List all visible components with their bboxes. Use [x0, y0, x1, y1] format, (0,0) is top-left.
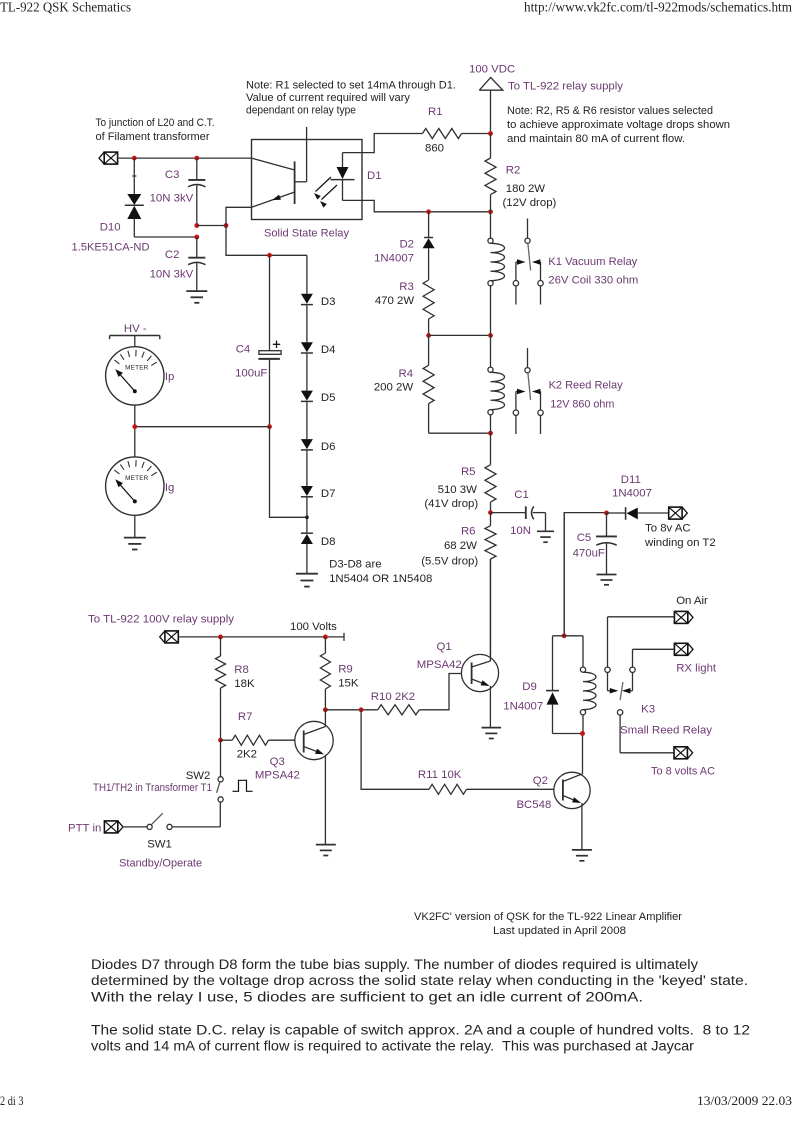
svg-text:510 3W: 510 3W [438, 484, 478, 496]
paragraph 1 [91, 957, 748, 1005]
svg-text:R2: R2 [506, 165, 521, 177]
node dot rail2 bus [488, 333, 493, 338]
connector On Air [674, 611, 687, 623]
node dot R10 R11 [359, 707, 364, 712]
svg-text:With the relay I use, 5 diodes: With the relay I use, 5 diodes are suffi… [91, 989, 643, 1005]
node dot rail2 left [426, 333, 431, 338]
wire R11 branch [361, 710, 429, 790]
node junction dot A [132, 156, 137, 161]
diode D5 [301, 354, 313, 402]
svg-text:Solid State Relay: Solid State Relay [264, 228, 349, 240]
node dot R7 R8 [218, 738, 223, 743]
capacitor C1 10N [491, 506, 546, 530]
transistor Q3 MPSA42 [295, 710, 333, 845]
svg-text:R8: R8 [234, 664, 249, 676]
wire C3 node to SSR input [197, 225, 226, 227]
wire LED top to R1 [343, 134, 423, 153]
svg-text:100uF: 100uF [235, 368, 267, 380]
svg-text:D9: D9 [522, 681, 537, 693]
node dot meters [132, 424, 137, 429]
svg-text:1N4007: 1N4007 [503, 701, 543, 713]
capacitor C2 [188, 237, 205, 291]
svg-text:K1 Vacuum Relay: K1 Vacuum Relay [548, 256, 637, 268]
svg-text:R7: R7 [238, 711, 253, 723]
wire K3 to 8 volts AC [620, 752, 674, 754]
connector filament transformer [104, 152, 117, 164]
diode D7 [301, 451, 313, 497]
svg-text:Q2: Q2 [533, 775, 548, 787]
resistor R8 [216, 637, 226, 740]
connector to 8v AC winding [669, 507, 682, 519]
resistor R10 [378, 705, 420, 715]
diode D4 [301, 305, 313, 353]
svg-text:determined by the voltage drop: determined by the voltage drop across th… [91, 973, 748, 989]
svg-text:winding on T2: winding on T2 [644, 537, 716, 549]
svg-text:Last updated in April 2008: Last updated in April 2008 [493, 925, 626, 937]
svg-text:METER: METER [125, 475, 149, 482]
connector to 8 volts AC [674, 747, 687, 759]
diode D9 [546, 636, 559, 734]
wire filament to SSR [118, 157, 252, 159]
op-box solid state relay U1 [252, 140, 363, 220]
transistor Q1 MPSA42 [461, 559, 498, 727]
svg-text:D4: D4 [321, 344, 336, 356]
svg-text:R1: R1 [428, 106, 443, 118]
svg-text:D3-D8 are: D3-D8 are [329, 559, 382, 571]
svg-text:and maintain 80 mA of current: and maintain 80 mA of current flow. [507, 133, 685, 145]
resistor R6 [485, 513, 496, 657]
node dot SSR input [224, 223, 229, 228]
ground below C5 [597, 574, 617, 576]
svg-text:Standby/Operate: Standby/Operate [119, 858, 202, 870]
relay K2 coil [488, 335, 505, 433]
resistor R7 [221, 735, 296, 745]
node dot R9 top [323, 635, 328, 640]
transistor Q2 BC548 [554, 734, 590, 850]
svg-text:C2: C2 [165, 249, 180, 261]
node dot R8 top [218, 635, 223, 640]
svg-text:12V 860 ohm: 12V 860 ohm [550, 399, 614, 411]
svg-text:R4: R4 [399, 368, 414, 380]
svg-text:C4: C4 [236, 344, 251, 356]
svg-text:C5: C5 [577, 532, 592, 544]
note about R2 R5 R6 [507, 105, 730, 145]
resistor R9 [320, 637, 330, 710]
svg-text:D2: D2 [399, 239, 414, 251]
svg-text:TL-922 QSK Schematics: TL-922 QSK Schematics [0, 0, 131, 15]
svg-text:C1: C1 [514, 489, 529, 501]
ground below C2 [186, 290, 207, 292]
svg-text:On Air: On Air [676, 595, 708, 607]
svg-text:68 2W: 68 2W [444, 540, 477, 552]
svg-text:MPSA42: MPSA42 [417, 659, 462, 671]
diode D10 1.5KE51CA-ND [125, 158, 144, 237]
svg-text:R9: R9 [338, 664, 353, 676]
node dot rail3 bus [488, 431, 493, 436]
switch SW1 [123, 813, 221, 829]
svg-text:Value of current required will: Value of current required will vary [246, 92, 410, 104]
svg-text:Q1: Q1 [437, 641, 452, 653]
wire Ip to Ig [134, 405, 136, 457]
svg-text:dependant on relay type: dependant on relay type [246, 105, 356, 117]
svg-text:13/03/2009 22.03: 13/03/2009 22.03 [697, 1094, 792, 1108]
node junction dot B [194, 156, 199, 161]
svg-text:200 2W: 200 2W [374, 382, 414, 394]
svg-text:2K2: 2K2 [237, 749, 257, 761]
svg-text:VK2FC' version of QSK for the: VK2FC' version of QSK for the TL-922 Lin… [414, 911, 682, 923]
svg-text:1.5KE51CA-ND: 1.5KE51CA-ND [72, 242, 150, 254]
svg-text:1N4007: 1N4007 [374, 253, 414, 265]
resistor R11 [429, 784, 467, 794]
svg-text:of Filament transformer: of Filament transformer [96, 131, 210, 143]
wire down to diode chain [226, 226, 307, 256]
svg-text:D8: D8 [321, 536, 336, 548]
node dot D11 C5 [604, 511, 609, 516]
relay K3 coil [580, 636, 596, 734]
resistor R3 [423, 280, 434, 335]
SSR phototransistor [252, 127, 307, 207]
svg-text:RX light: RX light [676, 663, 717, 675]
label to 8v AC [644, 523, 716, 550]
capacitor C4 100uF [258, 255, 281, 426]
svg-text:http://www.vk2fc.com/tl-922mod: http://www.vk2fc.com/tl-922mods/schemati… [524, 0, 793, 15]
svg-text:D5: D5 [321, 392, 336, 404]
svg-text:K2 Reed Relay: K2 Reed Relay [549, 380, 623, 392]
ground below C1 [537, 530, 554, 532]
svg-text:Ip: Ip [165, 371, 175, 383]
wire K3 to On Air [608, 616, 675, 618]
node dot rail D2 [426, 209, 431, 214]
node dot C4 top [267, 253, 272, 258]
node dot R9 bottom [323, 707, 328, 712]
SSR LED D1 [331, 153, 355, 201]
node dot D7 D8 junction [305, 498, 309, 534]
node dot K3 coil top [562, 633, 567, 638]
connector PTT [104, 821, 117, 833]
wire meters to C4 [135, 426, 270, 428]
svg-text:Diodes D7 through D8 form the: Diodes D7 through D8 form the tube bias … [91, 957, 699, 973]
meter Ip [106, 347, 164, 405]
paragraph 2 [91, 1023, 750, 1055]
diode D2 [423, 212, 435, 280]
svg-text:Note: R2, R5 & R6 resistor val: Note: R2, R5 & R6 resistor values select… [507, 105, 713, 117]
svg-text:2 di 3: 2 di 3 [0, 1094, 24, 1108]
svg-text:K3: K3 [641, 704, 655, 716]
svg-text:D6: D6 [321, 441, 336, 453]
wire riser to SSR emitter [226, 207, 252, 225]
wire coil loop top [553, 635, 584, 637]
switch SW2 [217, 740, 224, 827]
svg-text:R5: R5 [461, 466, 476, 478]
svg-text:SW1: SW1 [147, 839, 172, 851]
svg-text:C3: C3 [165, 169, 180, 181]
svg-text:Q3: Q3 [270, 756, 285, 768]
svg-text:18K: 18K [234, 678, 255, 690]
label D3-D8 are [329, 559, 432, 586]
svg-text:TH1/TH2 in Transformer T1: TH1/TH2 in Transformer T1 [93, 782, 212, 794]
relay K3 contacts [605, 617, 635, 753]
svg-text:to achieve approximate voltage: to achieve approximate voltage drops sho… [507, 119, 730, 131]
ground below Q2 [572, 849, 592, 851]
resistor R5 [485, 433, 496, 512]
svg-text:To 8v AC: To 8v AC [645, 523, 691, 535]
wire K3 to RX light [633, 648, 675, 650]
svg-text:To TL-922 relay supply: To TL-922 relay supply [508, 81, 623, 93]
svg-text:R3: R3 [399, 281, 414, 293]
wire R10 to Q1 base [419, 674, 461, 710]
svg-text:180 2W: 180 2W [506, 183, 546, 195]
relay K1 coil [488, 212, 505, 336]
svg-text:To TL-922 100V relay supply: To TL-922 100V relay supply [88, 613, 234, 625]
wire R1 to bus [462, 133, 491, 135]
node 100 VDC power arrow [469, 64, 515, 134]
svg-text:D7: D7 [321, 488, 336, 500]
resistor R1 [423, 129, 462, 139]
ground below D8 [296, 573, 318, 575]
node dot D10 net [194, 235, 199, 240]
connector 100V relay supply [165, 631, 178, 643]
node dot Q2 collector [580, 731, 585, 736]
svg-text:To 8 volts AC: To 8 volts AC [651, 766, 715, 778]
svg-text:860: 860 [425, 143, 444, 155]
wire R11 to Q2 base [467, 788, 555, 790]
svg-text:The solid state D.C. relay is: The solid state D.C. relay is capable of… [91, 1023, 750, 1039]
wire supply to K3 coil [563, 513, 565, 636]
wire Ig to ground [134, 515, 136, 537]
svg-text:Ig: Ig [165, 482, 175, 494]
ground below Ig [124, 537, 146, 539]
node dot R5 R6 [488, 510, 493, 515]
ground below Q3 [316, 844, 336, 846]
svg-text:1N5404 OR 1N5408: 1N5404 OR 1N5408 [329, 573, 432, 585]
node dot C4 bottom [267, 424, 272, 429]
svg-text:470 2W: 470 2W [375, 295, 415, 307]
ground below Q1 [482, 727, 502, 729]
svg-text:SW2: SW2 [186, 770, 211, 782]
resistor R2 [485, 134, 496, 212]
svg-text:MPSA42: MPSA42 [255, 770, 300, 782]
wire coil loop bottom [553, 733, 584, 735]
wire rail3 [429, 432, 491, 434]
relay K2 contacts [513, 348, 543, 434]
svg-text:D3: D3 [321, 296, 336, 308]
wire 100V rail [178, 633, 344, 641]
svg-text:HV -: HV - [124, 323, 147, 335]
svg-text:15K: 15K [338, 678, 359, 690]
node dot rail bus [488, 209, 493, 214]
svg-text:470uF: 470uF [573, 548, 605, 560]
SW2 pulse mark [233, 780, 253, 791]
svg-text:To junction of L20 and C.T.: To junction of L20 and C.T. [96, 117, 215, 129]
wire HV bar [110, 336, 160, 347]
diode D6 [301, 402, 313, 450]
svg-text:Note: R1 selected to set 14mA: Note: R1 selected to set 14mA through D1… [246, 80, 456, 92]
capacitor C5 470uF [596, 513, 617, 574]
svg-text:R11 10K: R11 10K [418, 769, 462, 781]
note about R1 [246, 80, 456, 117]
capacitor C3 [188, 158, 205, 225]
resistor R4 [423, 335, 434, 433]
svg-text:(12V drop): (12V drop) [503, 197, 557, 209]
svg-text:D11: D11 [621, 474, 641, 486]
SSR light arrows [314, 177, 337, 208]
wire LED bottom rail [343, 200, 491, 211]
svg-text:PTT in: PTT in [68, 823, 101, 835]
diode D3 [301, 255, 313, 304]
svg-text:D10: D10 [100, 222, 121, 234]
wire C4 to D7D8 junction [270, 427, 307, 518]
svg-text:BC548: BC548 [516, 799, 551, 811]
wire rail2 [429, 334, 491, 336]
wire node to D11 row [564, 513, 606, 636]
meter Ig [106, 457, 164, 515]
svg-text:R6: R6 [461, 526, 476, 538]
diode D8 [301, 533, 313, 573]
node dot C3 bottom [194, 223, 199, 228]
svg-text:R10 2K2: R10 2K2 [371, 691, 415, 703]
svg-text:volts and 14 mA of current flo: volts and 14 mA of current flow is requi… [91, 1039, 694, 1055]
relay K1 contacts [513, 219, 543, 305]
svg-text:METER: METER [125, 365, 149, 372]
svg-text:10N 3kV: 10N 3kV [150, 269, 194, 281]
svg-text:100 VDC: 100 VDC [469, 64, 515, 76]
svg-text:(41V drop): (41V drop) [424, 498, 478, 510]
diode D11 [607, 507, 669, 520]
svg-text:1N4007: 1N4007 [612, 488, 652, 500]
svg-text:10N: 10N [510, 525, 531, 537]
wire Q3 node to R10 [325, 709, 377, 711]
node dot R1 bus [488, 131, 493, 136]
svg-text:100 Volts: 100 Volts [290, 621, 337, 633]
svg-text:Small Reed Relay: Small Reed Relay [620, 725, 712, 737]
svg-text:10N 3kV: 10N 3kV [150, 193, 194, 205]
svg-text:D1: D1 [367, 170, 382, 182]
connector RX light [674, 643, 687, 655]
wire D10 return [134, 236, 197, 238]
svg-text:(5.5V drop): (5.5V drop) [421, 556, 478, 568]
label to junction of L20 [96, 117, 215, 143]
svg-text:26V Coil 330 ohm: 26V Coil 330 ohm [548, 275, 638, 287]
